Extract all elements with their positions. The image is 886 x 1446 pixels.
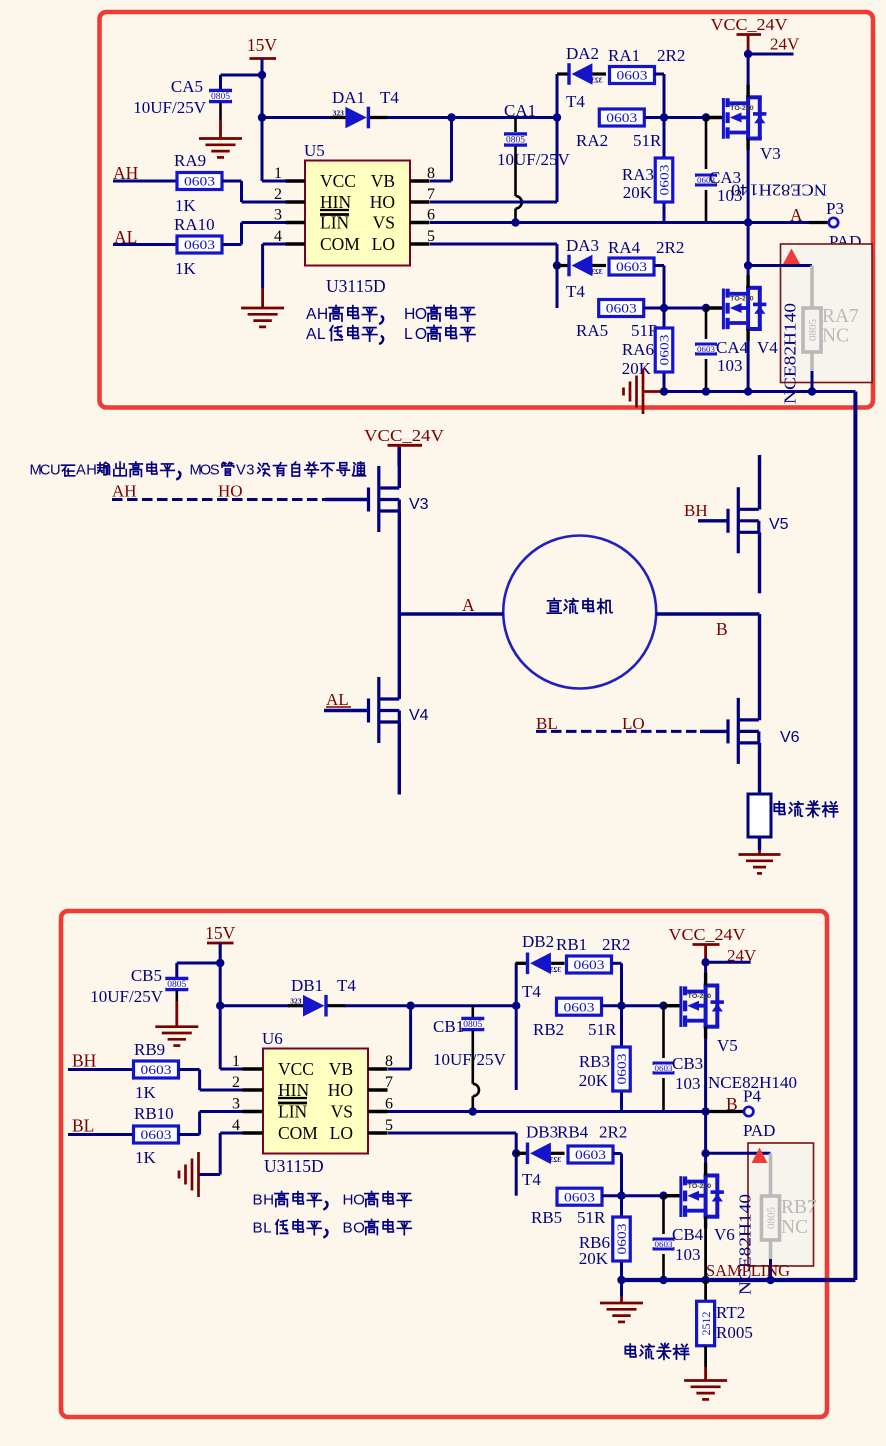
svg-text:RA3: RA3 (622, 165, 654, 184)
svg-text:HO: HO (370, 192, 395, 212)
svg-text:V4: V4 (757, 338, 778, 357)
svg-text:10UF/25V: 10UF/25V (433, 1050, 506, 1069)
svg-text:NC: NC (781, 1217, 808, 1238)
svg-text:RB9: RB9 (134, 1040, 165, 1059)
svg-text:B: B (726, 1094, 738, 1114)
svg-text:V3: V3 (760, 144, 781, 163)
svg-text:DA2: DA2 (566, 44, 599, 63)
svg-text:T4: T4 (566, 92, 585, 111)
svg-text:U3115D: U3115D (326, 276, 386, 296)
svg-text:NCE82H140: NCE82H140 (731, 181, 827, 200)
svg-text:RA6: RA6 (622, 340, 654, 359)
svg-text:BL: BL (72, 1116, 94, 1136)
svg-text:10UF/25V: 10UF/25V (497, 150, 570, 169)
svg-text:8: 8 (385, 1053, 393, 1070)
svg-text:AL: AL (326, 690, 349, 709)
svg-text:3: 3 (246, 463, 254, 479)
svg-text:V6: V6 (714, 1225, 735, 1244)
svg-text:20K: 20K (622, 359, 652, 378)
svg-text:DA3: DA3 (566, 236, 599, 255)
svg-text:RB1: RB1 (556, 935, 587, 954)
svg-text:H: H (317, 306, 328, 323)
svg-text:VB: VB (329, 1059, 353, 1079)
svg-text:LIN: LIN (278, 1102, 308, 1122)
svg-text:A: A (306, 306, 317, 323)
svg-text:VCC: VCC (320, 171, 356, 191)
svg-text:CB1: CB1 (433, 1017, 464, 1036)
svg-text:VCC_24V: VCC_24V (711, 15, 788, 34)
svg-text:O: O (353, 1220, 365, 1237)
svg-text:10UF/25V: 10UF/25V (90, 987, 163, 1006)
svg-text:HO: HO (218, 482, 243, 501)
svg-text:CA4: CA4 (716, 338, 749, 357)
svg-text:10UF/25V: 10UF/25V (133, 98, 206, 117)
svg-text:RB2: RB2 (533, 1020, 564, 1039)
svg-text:PAD: PAD (743, 1121, 775, 1140)
svg-text:DB2: DB2 (522, 932, 554, 951)
svg-text:VB: VB (371, 171, 395, 191)
svg-text:VCC_24V: VCC_24V (669, 925, 746, 944)
svg-text:3: 3 (232, 1096, 240, 1113)
svg-text:U3115D: U3115D (264, 1156, 324, 1176)
svg-text:1K: 1K (175, 259, 197, 278)
svg-text:7: 7 (385, 1074, 393, 1091)
svg-text:H: H (343, 1192, 354, 1209)
svg-text:2R2: 2R2 (657, 46, 685, 65)
svg-text:RB5: RB5 (531, 1208, 562, 1227)
svg-text:O: O (415, 306, 427, 323)
svg-text:U6: U6 (262, 1029, 283, 1048)
svg-text:103: 103 (675, 1245, 701, 1264)
svg-text:20K: 20K (623, 183, 653, 202)
svg-text:2R2: 2R2 (599, 1123, 627, 1142)
svg-text:VCC_24V: VCC_24V (364, 426, 444, 445)
svg-text:VCC: VCC (278, 1059, 314, 1079)
svg-text:CA1: CA1 (504, 101, 536, 120)
svg-text:S: S (210, 463, 220, 479)
svg-text:V5: V5 (717, 1036, 738, 1055)
svg-text:RA7: RA7 (822, 306, 859, 327)
svg-text:7: 7 (427, 186, 435, 203)
svg-text:1K: 1K (135, 1083, 157, 1102)
svg-text:4: 4 (274, 228, 282, 245)
svg-text:51R: 51R (633, 131, 662, 150)
svg-text:VS: VS (373, 213, 395, 233)
svg-text:A: A (306, 326, 317, 343)
svg-text:RA9: RA9 (174, 151, 206, 170)
svg-text:RA1: RA1 (608, 46, 640, 65)
svg-text:LO: LO (372, 234, 395, 254)
svg-text:6: 6 (385, 1096, 393, 1113)
svg-text:20K: 20K (579, 1249, 609, 1268)
svg-text:COM: COM (278, 1123, 318, 1143)
svg-text:RT2: RT2 (716, 1303, 745, 1322)
svg-text:20K: 20K (579, 1071, 609, 1090)
svg-text:6: 6 (427, 207, 435, 224)
svg-text:B: B (253, 1220, 263, 1237)
svg-text:V6: V6 (780, 729, 800, 746)
svg-text:2: 2 (274, 186, 282, 203)
svg-text:CB5: CB5 (131, 966, 162, 985)
svg-text:H: H (404, 306, 415, 323)
svg-text:A: A (462, 595, 475, 615)
svg-text:RA4: RA4 (608, 238, 641, 257)
svg-text:T4: T4 (522, 982, 541, 1001)
svg-text:V5: V5 (769, 516, 789, 533)
svg-text:51R: 51R (577, 1208, 606, 1227)
svg-text:RB4: RB4 (557, 1123, 589, 1142)
svg-text:A: A (76, 463, 86, 479)
svg-text:HO: HO (328, 1080, 353, 1100)
svg-text:DB3: DB3 (526, 1123, 558, 1142)
svg-text:BH: BH (684, 501, 708, 520)
svg-text:V3: V3 (409, 496, 429, 513)
svg-text:1: 1 (232, 1053, 240, 1070)
svg-text:O: O (353, 1192, 365, 1209)
svg-text:AH: AH (112, 482, 137, 501)
svg-text:RB10: RB10 (134, 1104, 174, 1123)
svg-text:B: B (253, 1192, 263, 1209)
svg-text:RA10: RA10 (174, 215, 215, 234)
svg-text:H: H (263, 1192, 274, 1209)
svg-text:V: V (236, 463, 246, 479)
svg-text:B: B (716, 619, 728, 639)
svg-text:RA5: RA5 (576, 321, 608, 340)
svg-text:15V: 15V (247, 35, 278, 55)
svg-text:3: 3 (274, 207, 282, 224)
svg-text:B: B (343, 1220, 353, 1237)
svg-text:CB4: CB4 (672, 1225, 704, 1244)
svg-text:L: L (404, 326, 413, 343)
svg-text:T4: T4 (337, 976, 356, 995)
svg-text:RA2: RA2 (576, 131, 608, 150)
svg-text:A: A (790, 205, 803, 225)
svg-text:NC: NC (822, 326, 849, 347)
svg-text:2R2: 2R2 (656, 238, 684, 257)
svg-text:15V: 15V (205, 923, 236, 943)
svg-text:T4: T4 (380, 88, 399, 107)
svg-text:P4: P4 (743, 1087, 761, 1106)
svg-text:1K: 1K (175, 196, 197, 215)
svg-text:VS: VS (331, 1102, 353, 1122)
svg-text:1K: 1K (135, 1148, 157, 1167)
svg-text:O: O (415, 326, 427, 343)
svg-text:L: L (317, 326, 326, 343)
svg-text:CA5: CA5 (171, 77, 203, 96)
svg-text:U: U (50, 463, 61, 479)
svg-text:8: 8 (427, 165, 435, 182)
svg-text:P3: P3 (826, 199, 844, 218)
svg-text:24V: 24V (727, 946, 757, 965)
svg-text:NCE82H140: NCE82H140 (781, 303, 800, 404)
svg-text:DA1: DA1 (332, 88, 365, 107)
svg-text:DB1: DB1 (291, 976, 323, 995)
svg-text:51R: 51R (588, 1020, 617, 1039)
svg-text:1: 1 (274, 165, 282, 182)
svg-text:2R2: 2R2 (602, 935, 630, 954)
svg-text:COM: COM (320, 234, 360, 254)
svg-text:BH: BH (72, 1051, 97, 1071)
svg-text:V4: V4 (409, 707, 429, 724)
svg-text:5: 5 (385, 1117, 393, 1134)
svg-text:RB3: RB3 (579, 1052, 610, 1071)
svg-text:T4: T4 (522, 1170, 541, 1189)
svg-text:H: H (86, 463, 97, 479)
svg-text:5: 5 (427, 228, 435, 245)
svg-text:L: L (263, 1220, 271, 1237)
svg-text:LO: LO (330, 1123, 353, 1143)
svg-text:RB7: RB7 (781, 1197, 817, 1218)
svg-text:2: 2 (232, 1074, 240, 1091)
svg-text:103: 103 (675, 1074, 701, 1093)
svg-text:T4: T4 (566, 282, 585, 301)
svg-text:4: 4 (232, 1117, 240, 1134)
svg-text:103: 103 (717, 356, 743, 375)
svg-text:U5: U5 (304, 141, 325, 160)
svg-text:SAMPLING: SAMPLING (706, 1261, 790, 1280)
svg-text:R005: R005 (716, 1323, 753, 1342)
svg-text:24V: 24V (770, 35, 800, 54)
svg-text:CB3: CB3 (672, 1054, 703, 1073)
